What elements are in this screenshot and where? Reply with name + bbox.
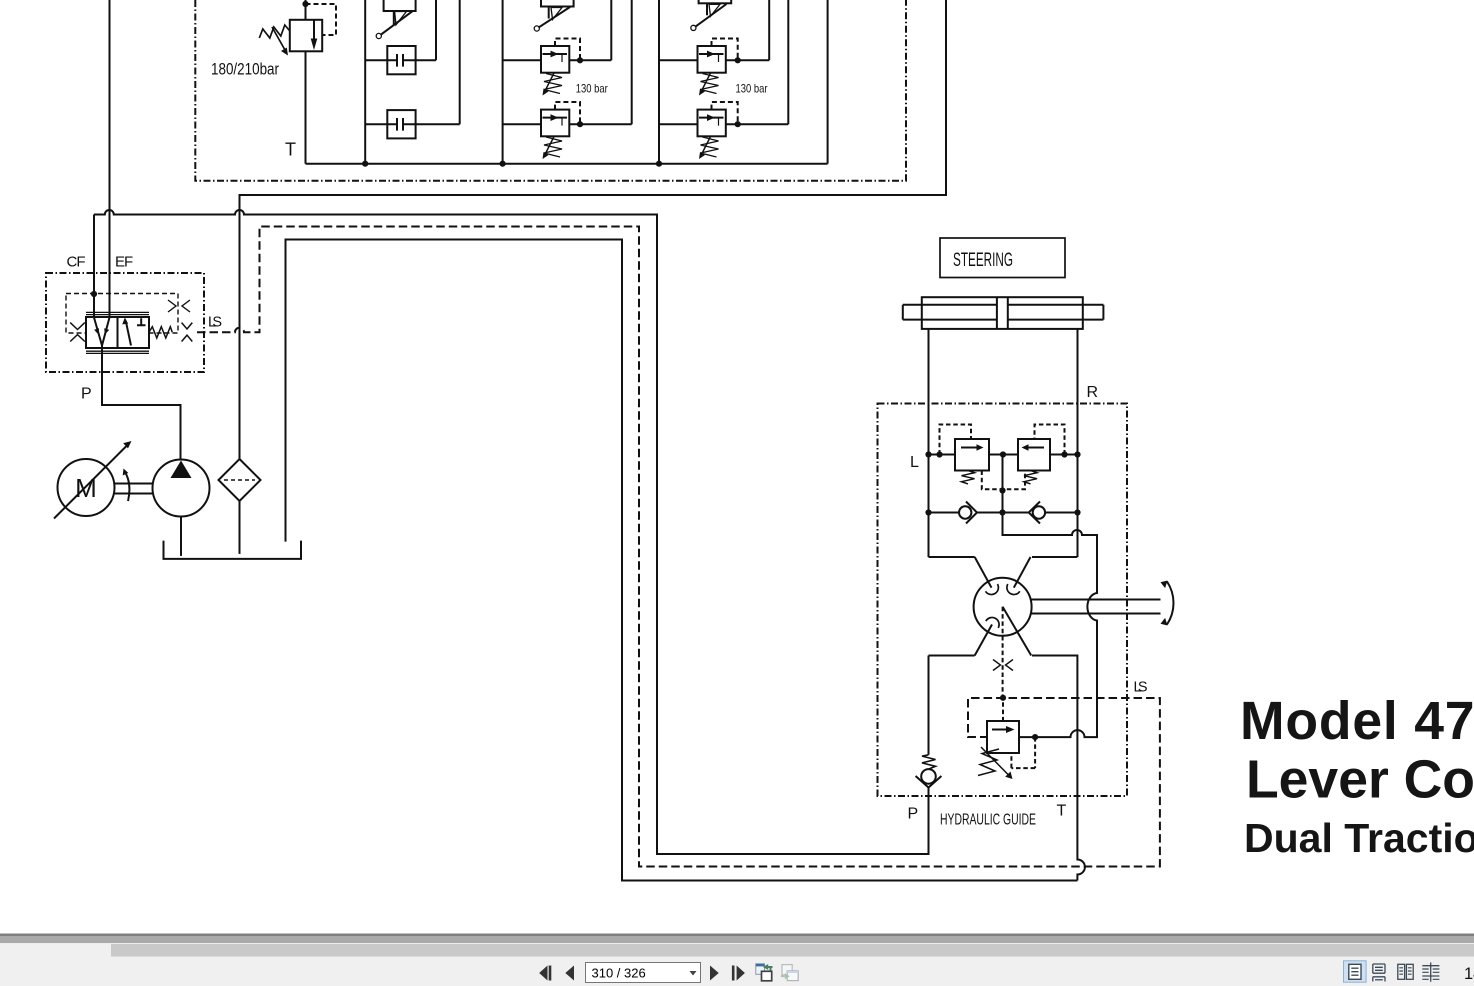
svg-text:Model 4710: Model 4710 <box>1240 692 1474 751</box>
svg-text:130 bar: 130 bar <box>576 82 608 96</box>
svg-text:130 bar: 130 bar <box>736 82 768 96</box>
svg-text:HYDRAULIC GUIDE: HYDRAULIC GUIDE <box>940 812 1036 829</box>
svg-text:R: R <box>1087 384 1099 401</box>
svg-text:L: L <box>910 454 919 471</box>
svg-text:310 / 326: 310 / 326 <box>592 966 646 981</box>
svg-text:M: M <box>75 473 97 503</box>
svg-text:CF: CF <box>67 254 86 271</box>
svg-text:T: T <box>285 140 296 160</box>
svg-text:LS: LS <box>1134 680 1148 696</box>
svg-text:P: P <box>81 386 92 403</box>
svg-text:STEERING: STEERING <box>953 250 1013 271</box>
svg-text:P: P <box>908 806 919 823</box>
svg-text:14: 14 <box>1464 965 1474 983</box>
svg-text:EF: EF <box>115 254 133 271</box>
svg-text:T: T <box>1057 803 1067 820</box>
svg-text:Dual Traction: Dual Traction <box>1244 815 1474 861</box>
svg-text:180/210bar: 180/210bar <box>211 60 279 79</box>
svg-text:Lever Controls: Lever Controls <box>1246 751 1474 810</box>
svg-text:LS: LS <box>208 315 222 331</box>
